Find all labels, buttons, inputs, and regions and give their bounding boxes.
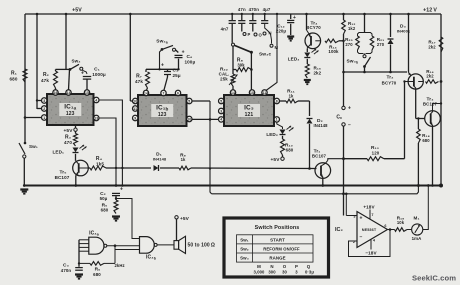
resistor R3	[74, 134, 78, 147]
svg-text:8: 8	[276, 99, 278, 103]
resistor R6	[90, 262, 104, 266]
diode D2 1N4148	[307, 119, 313, 124]
pin IC1b left 10	[133, 98, 138, 103]
svg-text:1: 1	[43, 116, 45, 120]
led LED3	[306, 49, 308, 52]
svg-text:O: O	[283, 264, 287, 269]
pin IC1b top-mid 7	[161, 90, 166, 95]
svg-text:9: 9	[134, 116, 136, 120]
wire IC3 pin1 down	[277, 122, 283, 129]
svg-text:+: +	[359, 216, 362, 222]
wire rail drop x66 to Sw2 node	[65, 14, 67, 69]
svg-text:M₁: M₁	[414, 215, 420, 220]
wire Tr5 emitter to ground bus	[75, 175, 77, 185]
op-amp IC1a box 123	[47, 94, 94, 125]
svg-text:4μ7: 4μ7	[263, 7, 271, 12]
capacitor C9 47n	[241, 14, 243, 20]
wire reform line y72	[344, 71, 408, 73]
wire meter to bus1	[423, 186, 429, 230]
wire bus2	[212, 186, 419, 194]
wire Tr4 emitter riser	[306, 14, 308, 30]
led LED2	[280, 130, 286, 135]
node bus2 junction	[342, 192, 345, 195]
led LED1	[73, 148, 79, 153]
resistor R2	[54, 71, 58, 88]
wire to IC1a pin 2	[37, 108, 42, 110]
wire IC1b pin to IC3 pin line	[192, 118, 220, 120]
svg-text:3: 3	[295, 270, 298, 275]
svg-text:+: +	[120, 187, 123, 193]
diode D1 1N4148	[154, 165, 159, 171]
ground C12	[287, 35, 294, 37]
wire R7 to pin	[147, 88, 148, 90]
svg-text:25k: 25k	[220, 77, 228, 82]
pin IC1a left 1	[42, 115, 47, 120]
svg-text:+5V: +5V	[64, 128, 74, 134]
svg-text:Sw₁: Sw₁	[240, 237, 249, 242]
wire IC1b pin5 to riser	[192, 100, 210, 102]
svg-text:4: 4	[95, 98, 97, 102]
resistor R1	[23, 69, 27, 82]
svg-text:+: +	[182, 50, 185, 56]
svg-text:+: +	[81, 71, 84, 77]
wire R6 riser	[114, 250, 116, 264]
node D3 junction	[389, 71, 392, 74]
resistor R11	[286, 99, 298, 103]
wire Tr3 collector to +12V line	[433, 104, 442, 111]
wire rail drop x37 to IC1a pins	[36, 14, 38, 109]
svg-text:13: 13	[94, 116, 98, 120]
svg-text:REFORM ON/OFF: REFORM ON/OFF	[263, 246, 300, 251]
pin IC1a right 4	[94, 97, 99, 102]
svg-text:2k2: 2k2	[426, 74, 434, 79]
pin IC1b left 9	[133, 115, 138, 120]
svg-text:NE536T: NE536T	[362, 228, 377, 232]
wire R9 to Tr1 base	[191, 167, 317, 170]
terminal Sw3c position M	[270, 44, 273, 47]
svg-text:LED₃: LED₃	[288, 57, 300, 62]
wire x130 to IC1b pin	[130, 100, 134, 102]
node rail junction x306	[305, 13, 308, 16]
svg-text:680: 680	[101, 208, 109, 213]
nand-gate IC4b	[140, 237, 155, 254]
transistor Tr2 BCY70	[408, 74, 423, 89]
node bus1 right end	[439, 184, 443, 188]
wire second line to IC4b	[115, 249, 140, 251]
svg-text:1k2: 1k2	[348, 26, 356, 31]
node rail junction x364	[363, 13, 366, 16]
capacitor C10 470n	[252, 14, 254, 20]
wire bank right drop to IC3	[266, 14, 277, 91]
wire Cx riser	[343, 72, 345, 106]
svg-text:IC₄a: IC₄a	[89, 231, 100, 237]
op-amp IC2 NE536T	[357, 212, 388, 248]
svg-text:Sw₃b: Sw₃b	[347, 59, 359, 65]
wire riser x210 down to bus2	[210, 101, 212, 194]
switch Sw3b	[365, 57, 371, 67]
ground R15	[304, 79, 311, 81]
wire IC4a output	[107, 245, 140, 247]
svg-text:7: 7	[163, 91, 165, 95]
capacitor C6 100u	[175, 54, 183, 56]
wire +5V/+12V top supply rail	[25, 13, 441, 15]
svg-text:IN4148: IN4148	[153, 157, 167, 162]
svg-text:O: O	[259, 33, 263, 38]
svg-text:IC₁b: IC₁b	[156, 105, 168, 112]
wire Sw2 contact to C1	[83, 70, 88, 74]
svg-text:680: 680	[10, 77, 18, 82]
svg-text:M: M	[257, 264, 261, 269]
op-amp IC3 box 121	[224, 95, 274, 126]
svg-text:4: 4	[220, 118, 222, 122]
wire to IC1a pin 3	[37, 100, 42, 102]
diode D3 1N4001	[390, 14, 392, 37]
svg-text:470n: 470n	[61, 268, 72, 273]
svg-text:1mA: 1mA	[412, 236, 423, 241]
svg-text:BC107: BC107	[312, 154, 327, 159]
svg-text:3: 3	[220, 109, 222, 113]
svg-text:1: 1	[276, 118, 278, 122]
wire reform to Tr2 base	[405, 81, 409, 83]
svg-text:47k: 47k	[135, 79, 143, 84]
svg-text:1k5: 1k5	[96, 161, 104, 166]
resistor R20	[356, 36, 360, 50]
wire parallel pair top	[358, 33, 373, 37]
wire rail drop x130 to IC1b	[129, 14, 131, 101]
wire Tr1 emitter to bus	[322, 178, 324, 185]
svg-text:N: N	[270, 264, 273, 269]
svg-text:IC₄b: IC₄b	[146, 255, 157, 261]
wire R14 to R12 node	[339, 40, 344, 42]
node riser-pin line junction	[209, 118, 212, 121]
wire node line corner down	[145, 69, 147, 72]
capacitor C12 220u	[290, 14, 292, 19]
pin IC3 left 5	[219, 98, 224, 103]
wire C2 to R5	[115, 196, 117, 200]
wire 4n7 contact down to R22	[232, 46, 234, 62]
wire Cx minus down to node	[343, 126, 345, 159]
terminal Sw3c position N	[263, 32, 266, 35]
wire ground bus1	[24, 185, 441, 187]
table switch positions frame	[224, 218, 329, 277]
svg-text:4: 4	[373, 239, 376, 243]
wire +12V right line	[440, 14, 442, 186]
wire IC3 pin8 right	[280, 100, 287, 102]
svg-text:LED₁: LED₁	[53, 150, 65, 155]
node R18 tap	[417, 117, 419, 119]
transistor Tr1 BC107	[315, 163, 331, 179]
pin IC1a top-right 15	[84, 90, 89, 95]
wire IC4b output to speaker	[157, 244, 174, 246]
pin IC1b right 5	[187, 98, 192, 103]
svg-text:1k: 1k	[289, 93, 294, 98]
wire left rail down from +5V corner	[24, 14, 26, 143]
resistor R21	[370, 36, 374, 50]
wire R10 to terminal	[282, 155, 284, 157]
svg-text:1k: 1k	[181, 157, 186, 162]
transistor Tr5 BC107	[73, 160, 89, 176]
svg-text:120: 120	[372, 150, 380, 155]
svg-text:SeekIC.com: SeekIC.com	[412, 274, 456, 283]
svg-text:IC₁a: IC₁a	[64, 104, 76, 111]
svg-text:Sw₃a: Sw₃a	[156, 39, 167, 45]
resistor R5	[114, 200, 118, 214]
pin IC3 top-left 14	[230, 90, 235, 95]
pin IC1a right 13	[94, 115, 99, 120]
svg-text:680: 680	[93, 272, 101, 277]
pin IC1a top-left 16	[53, 90, 58, 95]
wire Tr2 emitter riser	[408, 14, 410, 73]
wire R6 to riser	[104, 262, 115, 264]
table inner grid	[237, 235, 314, 262]
pin IC1a left 2	[42, 106, 47, 111]
switch Sw3a	[162, 45, 173, 49]
transistor Tr3 BC107	[425, 111, 441, 127]
svg-text:+12 V: +12 V	[423, 8, 437, 14]
speaker 50-100ohm	[174, 241, 179, 250]
capacitor C11 4u7	[264, 14, 266, 20]
wire R8 left to R22 line	[233, 69, 236, 71]
svg-text:−: −	[359, 235, 362, 241]
resistor R9	[179, 166, 191, 170]
svg-text:Switch Positions: Switch Positions	[255, 225, 300, 231]
svg-text:11: 11	[263, 91, 267, 95]
wire R11 to D2 corner	[298, 100, 310, 102]
svg-text:25μ: 25μ	[173, 73, 181, 78]
svg-text:680: 680	[286, 148, 294, 153]
ground C3	[75, 273, 83, 275]
pin IC1b left 11	[133, 106, 138, 111]
wire R12 down to Sw3b junction	[343, 34, 345, 72]
potentiometer R22 CAL 25k	[231, 74, 235, 86]
terminal Cx plus	[342, 106, 345, 109]
resistor R19	[395, 228, 408, 232]
svg-text:5: 5	[188, 99, 190, 103]
svg-text:121: 121	[245, 112, 254, 118]
terminal Sw3c position O	[254, 33, 257, 36]
wire Sw3b to line	[364, 67, 366, 73]
resistor R7	[146, 72, 150, 88]
resistor R15	[305, 64, 309, 78]
wire Sw2 node line	[56, 68, 71, 70]
svg-text:47k: 47k	[41, 78, 49, 83]
svg-text:2k2: 2k2	[428, 45, 436, 50]
wire Sw3a pole down to node line	[160, 49, 163, 69]
wire R2 to IC1a top pin	[55, 88, 57, 90]
svg-text:270: 270	[345, 42, 353, 47]
op-amp IC1b box 123	[138, 95, 187, 126]
svg-text:6: 6	[177, 91, 179, 95]
svg-text:2: 2	[43, 107, 45, 111]
wire R18 to bus1	[417, 143, 419, 186]
resistor R17	[439, 37, 443, 52]
svg-text:16: 16	[54, 91, 58, 95]
svg-text:300: 300	[268, 270, 276, 275]
svg-text:470n: 470n	[249, 7, 260, 12]
terminal Sw3c position P	[243, 33, 246, 36]
node ground-bus left junction	[23, 184, 26, 187]
svg-text:BCY70: BCY70	[382, 81, 397, 86]
svg-text:10: 10	[187, 117, 191, 121]
svg-text:0·3μ: 0·3μ	[305, 270, 314, 275]
wire pin4 -18V	[370, 240, 372, 250]
svg-text:14: 14	[144, 91, 148, 95]
wire LED1 to Tr5 collector	[75, 154, 77, 161]
svg-text:123: 123	[158, 112, 167, 118]
wire IC1a bottom to +5V terminal	[75, 125, 77, 128]
svg-text:1000μ: 1000μ	[92, 72, 106, 77]
svg-text:123: 123	[66, 111, 75, 117]
svg-text:START: START	[270, 237, 285, 242]
svg-text:100μ: 100μ	[185, 60, 196, 65]
node riser crosses base line	[209, 167, 211, 169]
resistor R18	[417, 129, 421, 143]
wire C2/R5 node to IC4b input	[116, 199, 140, 239]
svg-text:Sw₃c: Sw₃c	[259, 52, 271, 58]
wire node to R2	[55, 69, 57, 71]
svg-text:Cₓ: Cₓ	[336, 114, 342, 120]
svg-text:BC107: BC107	[55, 175, 70, 180]
svg-text:3: 3	[353, 214, 355, 218]
resistor R8	[236, 68, 251, 72]
node rail junction x343	[342, 13, 345, 16]
node bank junctions on rail	[231, 13, 233, 15]
node R16 to +12V line	[440, 80, 443, 83]
pin IC3 left 3	[219, 108, 224, 113]
wire Sw3c pole down	[250, 52, 252, 90]
svg-text:Q: Q	[307, 264, 311, 269]
wire IC4a input tie	[78, 240, 80, 264]
switch Sw1	[19, 143, 25, 154]
svg-text:Sw₃: Sw₃	[240, 255, 249, 260]
svg-text:680: 680	[422, 138, 430, 143]
resistor R10	[281, 139, 285, 155]
wire parallel pair bottom	[358, 50, 364, 54]
wire C6 down to node line	[178, 59, 180, 70]
svg-text:2kHz: 2kHz	[115, 263, 125, 268]
capacitor C4 25u	[164, 71, 171, 73]
wire D1 to R9	[160, 167, 179, 169]
svg-text:+: +	[348, 106, 351, 112]
svg-text:IC₃: IC₃	[244, 105, 254, 112]
svg-text:LED₂: LED₂	[266, 132, 278, 137]
svg-text:14: 14	[231, 91, 235, 95]
svg-text:Sw₁: Sw₁	[29, 144, 38, 149]
svg-text:100k: 100k	[328, 49, 339, 54]
pin IC1a left 3	[42, 98, 47, 103]
terminal Sw3c position contact (4n7)	[232, 43, 235, 46]
svg-text:47n: 47n	[238, 7, 246, 12]
wire R6 to C3	[79, 262, 90, 264]
wire Tr1 collector up-right	[328, 159, 344, 161]
pin IC1a top-mid 14	[66, 90, 71, 95]
wire IC1a pin13 to C2 riser	[99, 118, 116, 186]
wire D2 down to Tr1 base line	[309, 124, 311, 169]
capacitor C3 470n	[78, 263, 80, 266]
ground R5	[112, 215, 120, 217]
svg-text:P: P	[295, 264, 298, 269]
svg-text:P: P	[248, 32, 251, 37]
svg-text:14: 14	[67, 91, 71, 95]
svg-text:+: +	[161, 63, 164, 69]
svg-text:+5V: +5V	[180, 216, 190, 222]
svg-text:270: 270	[377, 42, 385, 47]
svg-text:11: 11	[133, 107, 137, 111]
pin IC3 left 4	[219, 117, 224, 122]
pin IC1b right 10b	[187, 116, 192, 121]
wire LED3 to R15	[306, 59, 308, 64]
wire op-amp output	[388, 229, 395, 231]
node IC1a pin3 branch	[36, 99, 38, 101]
svg-text:+: +	[293, 15, 296, 21]
svg-text:470: 470	[64, 140, 72, 145]
capacitor C1 1000u	[83, 76, 91, 78]
nand-gate IC4a	[89, 237, 104, 254]
svg-text:Sw₂: Sw₂	[72, 59, 81, 64]
svg-text:2k2: 2k2	[314, 71, 322, 76]
svg-text:5: 5	[220, 99, 222, 103]
svg-text:4n7: 4n7	[221, 27, 229, 32]
pin IC3 right 8	[274, 98, 279, 103]
node rail junction x408	[407, 13, 410, 16]
capacitor C2 50u	[112, 192, 120, 194]
wire rail to R12	[343, 14, 345, 20]
wire Tr5 base line	[88, 167, 90, 169]
svg-text:IN4148: IN4148	[314, 123, 329, 128]
meter M1 1mA	[412, 224, 423, 235]
wire to IC1a pin 1	[25, 117, 42, 119]
svg-text:3,000: 3,000	[254, 270, 266, 275]
pin IC3 right 1	[274, 117, 279, 122]
svg-text:15: 15	[85, 91, 89, 95]
svg-text:220μ: 220μ	[276, 29, 287, 34]
wire R13 right riser	[384, 158, 405, 160]
svg-text:+5V: +5V	[72, 8, 82, 14]
wire Sw1 to ground bus	[23, 158, 25, 186]
svg-text:7: 7	[371, 213, 373, 217]
wire oscillator node line	[146, 68, 179, 70]
terminal Cx minus	[342, 123, 345, 126]
svg-text:RANGE: RANGE	[269, 255, 285, 260]
terminal +5V speaker	[175, 216, 178, 219]
wire R19 to meter	[407, 229, 412, 231]
svg-text:BCY70: BCY70	[306, 25, 321, 30]
wire Cx node down to op-amp	[343, 159, 345, 216]
wire IC4a input stubs	[79, 239, 89, 241]
capacitor C8 4n7	[231, 14, 233, 20]
svg-text:30: 30	[282, 270, 287, 275]
svg-text:N: N	[269, 31, 272, 36]
node C2 top junction	[115, 184, 118, 187]
resistor R14	[325, 39, 339, 43]
transistor Tr4 BCY70	[305, 33, 321, 49]
pin IC3 top-right 11	[262, 90, 267, 95]
resistor R4	[90, 166, 106, 170]
wire op-amp +in from bus2	[345, 194, 347, 216]
svg-text:−18V: −18V	[365, 251, 377, 256]
resistor R12	[342, 20, 346, 34]
svg-text:+5V: +5V	[271, 157, 281, 163]
pin IC3 top-mid 10	[249, 90, 254, 95]
wire pin7 +18V	[369, 210, 371, 220]
wire R18 riser	[417, 119, 419, 130]
wire speaker +5V	[176, 219, 178, 241]
svg-text:10k: 10k	[397, 220, 405, 225]
svg-text:3: 3	[43, 99, 45, 103]
switch Sw3c wiper arm	[235, 45, 252, 52]
resistor R13	[367, 157, 384, 161]
wire Sw3a contact to C6	[176, 50, 179, 53]
